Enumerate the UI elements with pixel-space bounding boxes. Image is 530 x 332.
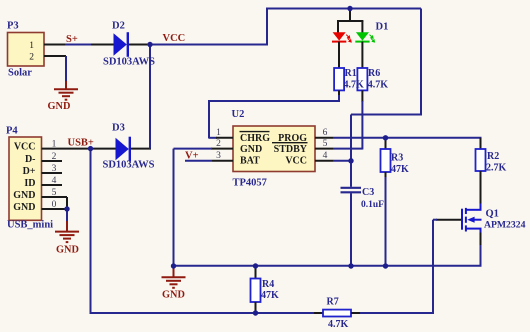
svg-text:GND: GND bbox=[13, 190, 35, 201]
svg-text:STDBY: STDBY bbox=[274, 144, 308, 155]
svg-text:4.7K: 4.7K bbox=[344, 80, 365, 91]
svg-text:Solar: Solar bbox=[8, 68, 32, 79]
svg-text:BAT: BAT bbox=[240, 155, 260, 166]
svg-text:D2: D2 bbox=[112, 21, 125, 32]
svg-text:R3: R3 bbox=[391, 153, 403, 164]
svg-text:D+: D+ bbox=[23, 166, 36, 177]
svg-text:4: 4 bbox=[323, 151, 328, 161]
svg-text:GND: GND bbox=[56, 244, 79, 255]
svg-text:D3: D3 bbox=[112, 123, 125, 134]
svg-text:VCC: VCC bbox=[285, 155, 307, 166]
svg-text:3: 3 bbox=[216, 151, 221, 161]
svg-text:D1: D1 bbox=[376, 21, 389, 32]
svg-text:1: 1 bbox=[216, 128, 221, 138]
svg-text:D-: D- bbox=[25, 154, 36, 165]
svg-text:GND: GND bbox=[48, 101, 71, 112]
svg-text:S+: S+ bbox=[66, 34, 78, 45]
svg-text:V+: V+ bbox=[185, 151, 199, 162]
svg-text:ID: ID bbox=[24, 178, 35, 189]
svg-text:4.7K: 4.7K bbox=[328, 319, 349, 330]
svg-text:SD103AWS: SD103AWS bbox=[103, 160, 155, 171]
svg-text:Q1: Q1 bbox=[486, 209, 499, 220]
svg-text:GND: GND bbox=[162, 290, 185, 301]
svg-text:U2: U2 bbox=[232, 109, 245, 120]
svg-text:R6: R6 bbox=[368, 68, 380, 79]
svg-text:VCC: VCC bbox=[163, 33, 186, 44]
svg-text:TP4057: TP4057 bbox=[233, 178, 267, 189]
svg-text:0.1uF: 0.1uF bbox=[361, 200, 384, 210]
svg-text:47K: 47K bbox=[391, 164, 409, 175]
svg-text:C3: C3 bbox=[362, 187, 374, 198]
svg-text:P4: P4 bbox=[6, 126, 18, 137]
svg-text:SD103AWS: SD103AWS bbox=[103, 57, 155, 68]
svg-text:USB_mini: USB_mini bbox=[7, 220, 53, 231]
svg-text:2: 2 bbox=[216, 139, 221, 149]
svg-text:APM2324: APM2324 bbox=[484, 220, 526, 231]
svg-text:2: 2 bbox=[29, 52, 34, 62]
svg-text:R4: R4 bbox=[262, 279, 274, 290]
svg-text:1: 1 bbox=[29, 41, 34, 51]
svg-text:R2: R2 bbox=[487, 151, 499, 162]
svg-text:R7: R7 bbox=[327, 297, 339, 308]
svg-text:4.7K: 4.7K bbox=[368, 80, 389, 91]
svg-text:2.7K: 2.7K bbox=[486, 163, 507, 174]
svg-text:GND: GND bbox=[240, 144, 262, 155]
svg-text:CHRG: CHRG bbox=[240, 133, 270, 144]
svg-text:R1: R1 bbox=[345, 68, 357, 79]
svg-text:GND: GND bbox=[13, 202, 35, 213]
svg-text:47K: 47K bbox=[261, 290, 279, 301]
svg-text:P3: P3 bbox=[7, 21, 19, 32]
svg-text:VCC: VCC bbox=[14, 142, 36, 153]
svg-text:6: 6 bbox=[323, 128, 328, 138]
svg-text:5: 5 bbox=[323, 139, 328, 149]
